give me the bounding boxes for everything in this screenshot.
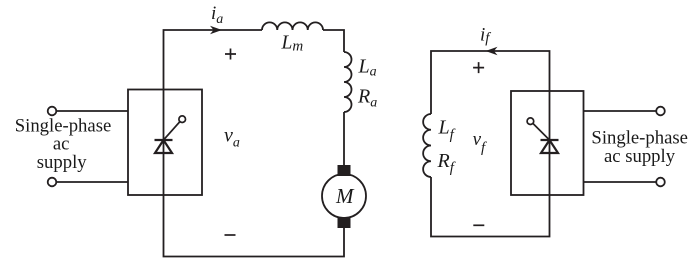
arrow ia — [210, 26, 222, 34]
wire: box to bottom-right terminal — [584, 181, 657, 183]
minus sign left — [225, 234, 236, 236]
svg-text:ac supply: ac supply — [604, 146, 676, 167]
arrow if — [486, 47, 498, 55]
wire: coil to motor — [343, 112, 345, 165]
converter box 1 — [128, 90, 202, 196]
svg-text:if: if — [480, 25, 491, 47]
minus sign right — [473, 224, 484, 226]
plus sign left — [225, 49, 236, 60]
svg-text:Ra: Ra — [357, 85, 377, 110]
wire: left vertical through box — [163, 90, 165, 196]
terminal circle top-right — [656, 107, 665, 116]
wire: motor to bottom, bottom wire, left vertical lower — [164, 195, 345, 257]
motor M — [322, 165, 366, 228]
svg-text:Lf: Lf — [438, 117, 456, 144]
svg-text:ia: ia — [211, 3, 223, 27]
converter box 2 — [511, 91, 584, 195]
wire: box to top-right terminal — [584, 110, 657, 112]
wire: right loop top — [431, 51, 550, 114]
inductor Lm — [262, 22, 323, 30]
wire: right loop bottom — [431, 177, 550, 237]
wire: right vertical through box — [549, 91, 551, 195]
wire: left loop top — [164, 30, 263, 90]
svg-text:Rf: Rf — [437, 150, 456, 176]
thyristor Q2 (converter 2 switch symbol) — [527, 118, 558, 153]
terminal circle bottom-right — [656, 178, 665, 187]
inductor La / resistor Ra (lumped coil) — [344, 52, 352, 112]
terminal circle top-left — [48, 107, 57, 116]
svg-text:Lm: Lm — [281, 33, 304, 55]
thyristor Q1 (converter 1 switch symbol) — [155, 116, 186, 153]
terminal circle bottom-left — [48, 178, 57, 187]
svg-text:va: va — [224, 125, 240, 151]
inductor Lf / resistor Rf (lumped coil) — [423, 114, 431, 177]
wire: top-left terminal to box — [56, 110, 128, 112]
svg-text:La: La — [358, 56, 377, 80]
svg-text:supply: supply — [37, 152, 87, 173]
wire: bottom-left terminal to box — [56, 181, 128, 183]
svg-text:vf: vf — [473, 129, 487, 156]
plus sign right — [473, 62, 484, 73]
svg-text:M: M — [335, 184, 355, 208]
wire: top right to corner — [323, 30, 344, 52]
